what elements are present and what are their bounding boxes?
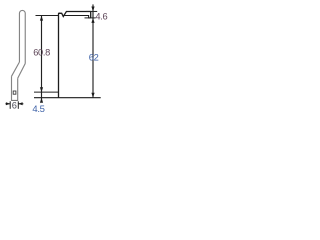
svg-text:62: 62 (89, 52, 99, 62)
arrow down at 4.6 top tick (91, 7, 94, 12)
pin bottom edge (11, 99, 18, 101)
arrow up at 4.6 bottom tick (91, 18, 94, 23)
dim 6 left extension tick (9, 101, 11, 109)
svg-text:60.8: 60.8 (33, 47, 50, 57)
dim line 4.6 / 62 vertical (92, 4, 94, 97)
arrow down at 62 bottom (91, 93, 94, 98)
pin bend diagonals (12, 62, 26, 78)
pin square hole (13, 91, 16, 94)
arrow down at 60.8 bottom / 4.5 top (40, 87, 43, 92)
tick 4.6 lower (85, 17, 96, 19)
svg-text:6: 6 (12, 100, 17, 110)
dim 6 left line (5, 103, 10, 105)
tick 4.6 upper (86, 10, 97, 12)
svg-text:4.6: 4.6 (95, 12, 107, 22)
tick 4.5 top (34, 91, 59, 93)
plate left edge and top tab profile (59, 12, 91, 98)
arrow up at 60.8 top (40, 16, 43, 21)
arrow left at 6 right tick (18, 102, 22, 105)
arrow right at 6 left tick (6, 102, 10, 105)
svg-text:4.5: 4.5 (32, 104, 44, 115)
plate bottom base line (34, 97, 101, 99)
arrow up at 4.5 bottom (below base) (40, 98, 43, 103)
pin lower section (12, 76, 18, 100)
dim 6 right line (18, 103, 23, 105)
background (0, 0, 108, 117)
dim line 60.8 / 4.5 vertical (41, 16, 43, 101)
pin upper tube with rounded top (19, 10, 25, 63)
plate flange underside and right hook (64, 16, 91, 18)
dim 60.8 top extension line (36, 15, 59, 17)
dim 6 right extension tick (17, 101, 19, 109)
